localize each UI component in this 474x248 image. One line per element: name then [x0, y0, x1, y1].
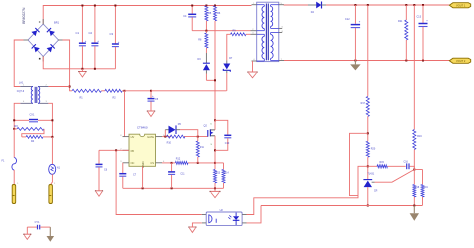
resistor R11: [196, 137, 204, 163]
resistor R2: [105, 89, 122, 99]
resistor R18: [413, 170, 420, 206]
svg-text:R10: R10: [167, 142, 172, 145]
svg-text:R21: R21: [398, 20, 403, 23]
wire IC GND down: [142, 166, 144, 188]
wire R17 feed: [367, 5, 369, 96]
diode D3: [198, 58, 210, 80]
wire FB to opto: [116, 150, 206, 214]
resistor R19: [421, 170, 428, 206]
ground secondary (earth arrow): [410, 206, 419, 221]
wire F1 to plug: [13, 170, 15, 185]
wire R16 feed: [413, 5, 415, 130]
svg-text:R13: R13: [216, 173, 221, 175]
ground primary GND: [210, 188, 221, 197]
resistor R21 bleeder: [398, 5, 408, 61]
svg-text:R14: R14: [225, 173, 230, 175]
svg-text:C12: C12: [345, 18, 350, 21]
ground C6: [95, 190, 103, 196]
svg-text:C1: C1: [76, 31, 80, 35]
ground CY1 right (earth): [47, 227, 55, 242]
wire choke left down: [14, 103, 20, 129]
diode D4: [284, 2, 326, 15]
svg-text:BR60227N: BR60227N: [22, 7, 26, 24]
capacitor C11: [168, 163, 185, 188]
diode D7 (zener): [223, 57, 233, 73]
diode D5 bypass: [165, 123, 198, 137]
wire bridge left AC down to choke: [14, 40, 23, 87]
svg-text:R16: R16: [417, 135, 422, 138]
wire opto emitter to anode rail: [242, 206, 261, 223]
svg-text:NC: NC: [131, 161, 135, 165]
svg-text:HV: HV: [131, 135, 135, 139]
svg-text:C3: C3: [110, 32, 114, 36]
wire R1-R2: [101, 90, 105, 92]
capacitor C16: [404, 160, 415, 169]
transistor Q2 (MOSFET): [204, 124, 216, 147]
label BR60227N (rotated): [22, 7, 26, 24]
svg-text:BR1: BR1: [54, 21, 60, 25]
svg-text:CX1: CX1: [30, 113, 35, 116]
capacitor CX1: [13, 113, 53, 121]
resistor R9: [227, 29, 251, 60]
resistor R10: [167, 135, 186, 145]
svg-text:C2: C2: [89, 31, 93, 35]
ground C12 (earth): [350, 61, 360, 71]
svg-text:VOUT 1: VOUT 1: [456, 3, 466, 7]
capacitor C5: [148, 91, 159, 111]
ground PGND bulk caps: [78, 69, 86, 77]
resistor R14: [222, 163, 229, 188]
svg-text:R11: R11: [200, 147, 205, 149]
shunt regulator U4 TL431: [363, 172, 377, 192]
svg-text:R18: R18: [415, 187, 420, 189]
wire drain vertical: [214, 31, 216, 121]
resistor R1: [72, 89, 101, 99]
capacitor C1: [76, 5, 87, 70]
wire 0V rail: [284, 60, 450, 62]
svg-text:FB: FB: [131, 149, 135, 153]
wire R20 to TL431: [367, 157, 369, 179]
capacitor C3: [110, 5, 120, 69]
port VOUT1: [449, 3, 470, 8]
common-mode choke LA1: [17, 82, 49, 104]
wire GND rail: [123, 187, 224, 189]
connector J1 (line plug): [12, 183, 19, 203]
capacitor C6: [96, 150, 108, 191]
resistor R20: [366, 141, 376, 157]
wire opto collector to TL431 cathode: [242, 166, 368, 214]
capacitor C10: [215, 120, 231, 150]
svg-text:R12: R12: [176, 157, 181, 160]
resistor R15: [368, 161, 406, 168]
resistor R4 (folded series): [22, 129, 54, 143]
wire R18R19 top: [414, 169, 422, 171]
resistor R3: [13, 125, 44, 130]
wire anode rail: [261, 205, 423, 207]
svg-text:R17: R17: [361, 102, 366, 105]
wire bridge right AC down (crosses DC- rail): [63, 40, 73, 91]
wire choke right down: [48, 103, 52, 137]
svg-text:R20: R20: [371, 148, 376, 151]
wire divider tap: [350, 133, 368, 195]
resistor R6: [214, 5, 221, 31]
svg-text:CY1: CY1: [35, 221, 40, 224]
neon lamp NE1: [49, 137, 61, 185]
wire DC- rail: [43, 57, 115, 69]
IC U1 CT8460: [120, 126, 165, 168]
resistor R17: [361, 96, 370, 116]
capacitor C12: [345, 5, 361, 61]
wire R17-R20: [367, 116, 369, 141]
transformer T1: [251, 2, 285, 61]
junction choke pin2 tee: [48, 86, 70, 88]
ground opto: [188, 227, 196, 233]
svg-text:CT8460: CT8460: [137, 126, 148, 130]
capacitor CY1: [27, 221, 50, 229]
wire snubber bottom to primary pin: [192, 30, 250, 32]
port VOUT2: [449, 58, 470, 63]
resistor R12: [172, 157, 188, 164]
connector J2 (line plug): [49, 183, 56, 203]
wire VDD down to pin8: [124, 91, 126, 137]
svg-text:VOUT 2: VOUT 2: [456, 59, 466, 63]
bridge rectifier BR1: [24, 19, 63, 62]
capacitor C13: [417, 5, 429, 61]
wire FB line: [99, 149, 129, 151]
svg-text:GATE: GATE: [147, 135, 154, 139]
capacitor C2: [89, 5, 100, 70]
fuse F1: [2, 129, 17, 170]
resistor R8: [198, 31, 208, 64]
svg-text:CQ7-6: CQ7-6: [17, 90, 25, 93]
wire +V out rail: [326, 4, 450, 6]
svg-text:C10: C10: [225, 142, 230, 145]
wire VDD line to IC: [122, 90, 226, 92]
resistor R16: [413, 130, 423, 150]
resistor R13: [214, 163, 221, 188]
svg-text:TL431: TL431: [367, 172, 374, 175]
wire drain node: [214, 119, 216, 130]
ground aux winding: [247, 61, 257, 78]
svg-text:C13: C13: [417, 16, 422, 19]
ground CY1 left (PGND): [23, 227, 31, 239]
svg-text:CR: CR: [374, 190, 378, 193]
capacitor C4: [183, 5, 196, 31]
capacitor C7: [119, 163, 137, 189]
wire source column: [214, 136, 216, 163]
wire D3 to drain: [206, 79, 216, 81]
svg-text:C16: C16: [404, 160, 409, 163]
svg-text:CS: CS: [150, 161, 154, 165]
wire opto bottom-left to ground: [192, 223, 206, 227]
svg-text:C11: C11: [180, 173, 185, 176]
optocoupler U2: [206, 209, 242, 226]
svg-text:R19: R19: [424, 187, 429, 189]
wire CS line: [162, 162, 224, 164]
resistor R5: [205, 5, 212, 31]
wire top DC+ rail: [43, 6, 251, 25]
wire D7 to VDD line: [226, 73, 228, 91]
wire TL431 ref diagonal: [375, 169, 416, 183]
wire R16 to node: [413, 150, 415, 170]
wire GATE line: [162, 136, 208, 138]
svg-text:R15: R15: [380, 161, 385, 164]
wire TL431 anode: [367, 187, 369, 206]
ground C5: [147, 111, 155, 117]
